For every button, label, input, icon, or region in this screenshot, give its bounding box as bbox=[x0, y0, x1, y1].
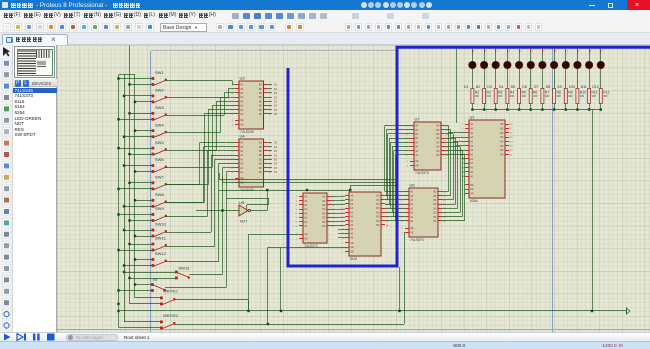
svg-text:U3: U3 bbox=[240, 76, 246, 81]
svg-text:SW8: SW8 bbox=[155, 192, 164, 197]
svg-text:R10: R10 bbox=[580, 90, 586, 94]
svg-text:OE: OE bbox=[470, 193, 474, 196]
svg-text:U4: U4 bbox=[240, 134, 246, 139]
svg-text:D12: D12 bbox=[592, 85, 598, 89]
svg-text:D2: D2 bbox=[476, 85, 480, 89]
svg-text:OE: OE bbox=[415, 165, 419, 168]
svg-text:OE: OE bbox=[240, 119, 244, 122]
svg-text:OE: OE bbox=[415, 160, 419, 163]
svg-text:NOT: NOT bbox=[240, 220, 247, 224]
svg-text:R7: R7 bbox=[545, 90, 549, 94]
svg-text:6116: 6116 bbox=[350, 257, 357, 261]
svg-text:300: 300 bbox=[557, 94, 562, 98]
svg-text:OE: OE bbox=[304, 233, 308, 236]
svg-text:6264: 6264 bbox=[470, 199, 478, 203]
svg-text:300: 300 bbox=[580, 94, 585, 98]
svg-text:OE: OE bbox=[240, 182, 244, 185]
svg-text:R5: R5 bbox=[522, 90, 526, 94]
svg-text:OE: OE bbox=[410, 227, 414, 230]
svg-text:SW10: SW10 bbox=[155, 222, 167, 227]
svg-text:74LS245: 74LS245 bbox=[240, 188, 254, 192]
svg-text:SW4: SW4 bbox=[155, 122, 164, 127]
svg-text:74LS373: 74LS373 bbox=[415, 171, 429, 175]
svg-text:300: 300 bbox=[533, 94, 538, 98]
svg-text:D7: D7 bbox=[534, 85, 538, 89]
svg-text:R6: R6 bbox=[533, 90, 537, 94]
svg-text:SW9: SW9 bbox=[155, 206, 164, 211]
svg-text:D10: D10 bbox=[569, 85, 575, 89]
svg-text:D3: D3 bbox=[487, 85, 491, 89]
svg-text:U7: U7 bbox=[415, 117, 421, 122]
svg-text:74LS373: 74LS373 bbox=[410, 238, 424, 242]
svg-text:300: 300 bbox=[487, 94, 492, 98]
svg-text:SW1: SW1 bbox=[155, 70, 164, 75]
svg-text:300: 300 bbox=[592, 94, 597, 98]
svg-text:SW3: SW3 bbox=[155, 105, 164, 110]
svg-text:OE: OE bbox=[410, 232, 414, 235]
svg-text:D9: D9 bbox=[557, 85, 561, 89]
svg-text:D4: D4 bbox=[499, 85, 503, 89]
svg-text:OE: OE bbox=[240, 124, 244, 127]
svg-text:300: 300 bbox=[475, 94, 480, 98]
svg-text:300: 300 bbox=[510, 94, 515, 98]
svg-text:300: 300 bbox=[545, 94, 550, 98]
svg-text:SW2: SW2 bbox=[155, 88, 164, 93]
svg-text:OE: OE bbox=[470, 188, 474, 191]
svg-text:SW6: SW6 bbox=[155, 157, 164, 162]
svg-text:SW7: SW7 bbox=[155, 175, 164, 180]
svg-text:WRITE2: WRITE2 bbox=[163, 313, 179, 318]
svg-text:R1: R1 bbox=[475, 90, 479, 94]
svg-text:300: 300 bbox=[498, 94, 503, 98]
svg-text:SW12: SW12 bbox=[155, 251, 167, 256]
svg-text:R12: R12 bbox=[603, 90, 609, 94]
svg-text:WRITE1: WRITE1 bbox=[163, 288, 179, 293]
svg-text:D1: D1 bbox=[464, 85, 468, 89]
svg-text:R2: R2 bbox=[487, 90, 491, 94]
svg-text:300: 300 bbox=[603, 94, 608, 98]
svg-text:U1: U1 bbox=[470, 115, 476, 120]
svg-text:OE: OE bbox=[350, 242, 354, 245]
svg-text:D11: D11 bbox=[581, 85, 587, 89]
svg-text:OE: OE bbox=[350, 251, 354, 254]
svg-text:D6: D6 bbox=[522, 85, 526, 89]
svg-text:D8: D8 bbox=[546, 85, 550, 89]
svg-text:OE: OE bbox=[304, 238, 308, 241]
svg-text:R4: R4 bbox=[510, 90, 514, 94]
svg-text:SW11: SW11 bbox=[155, 236, 166, 241]
svg-text:OE: OE bbox=[470, 184, 474, 187]
svg-text:U6: U6 bbox=[410, 183, 416, 188]
svg-text:300: 300 bbox=[522, 94, 527, 98]
svg-text:R11: R11 bbox=[592, 90, 598, 94]
svg-text:D5: D5 bbox=[511, 85, 515, 89]
svg-text:U9: U9 bbox=[239, 200, 245, 205]
svg-text:SW5: SW5 bbox=[155, 140, 164, 145]
svg-text:R3: R3 bbox=[498, 90, 502, 94]
svg-text:SW13: SW13 bbox=[179, 266, 191, 271]
svg-text:R8: R8 bbox=[557, 90, 561, 94]
svg-text:OE: OE bbox=[350, 246, 354, 249]
svg-text:R9: R9 bbox=[568, 90, 572, 94]
svg-text:300: 300 bbox=[568, 94, 573, 98]
